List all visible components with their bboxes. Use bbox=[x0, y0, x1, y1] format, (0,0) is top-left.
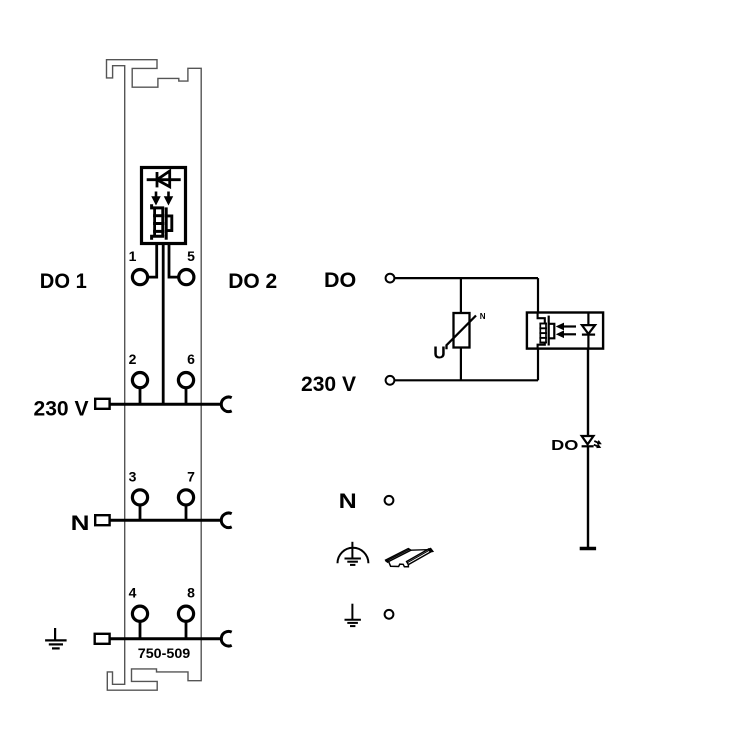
svg-text:DO: DO bbox=[324, 268, 356, 292]
svg-text:230 V: 230 V bbox=[301, 372, 357, 396]
svg-text:DO 2: DO 2 bbox=[228, 269, 277, 293]
svg-text:3: 3 bbox=[129, 468, 137, 484]
svg-text:N: N bbox=[339, 489, 357, 513]
svg-text:7: 7 bbox=[187, 468, 195, 484]
svg-text:4: 4 bbox=[129, 585, 137, 601]
svg-text:N: N bbox=[480, 312, 486, 321]
svg-text:2: 2 bbox=[129, 351, 137, 367]
svg-text:N: N bbox=[71, 511, 90, 535]
svg-text:DO 1: DO 1 bbox=[40, 269, 87, 293]
svg-text:5: 5 bbox=[187, 248, 195, 264]
svg-text:750-509: 750-509 bbox=[138, 645, 191, 661]
svg-text:8: 8 bbox=[187, 585, 195, 601]
svg-text:1: 1 bbox=[129, 248, 137, 264]
svg-text:DO: DO bbox=[551, 437, 579, 454]
svg-text:U: U bbox=[433, 343, 446, 363]
svg-text:6: 6 bbox=[187, 351, 195, 367]
svg-text:230 V: 230 V bbox=[34, 396, 90, 420]
